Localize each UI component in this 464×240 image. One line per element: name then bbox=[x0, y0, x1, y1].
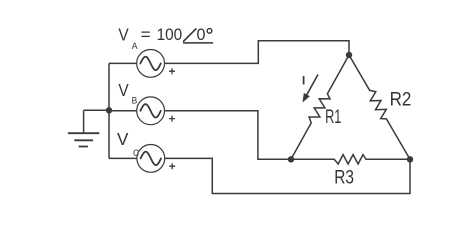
ac source VB plus polarity sign bbox=[169, 116, 175, 122]
wire source VB to left node bbox=[165, 111, 292, 160]
phasor angle underline bbox=[183, 42, 213, 44]
ground symbol bbox=[68, 133, 100, 146]
degree mark bbox=[207, 29, 212, 34]
phasor angle slash bbox=[183, 28, 196, 41]
wire left common bus bbox=[108, 63, 110, 158]
wire source VC to right node bbox=[165, 158, 410, 193]
resistor R1 bbox=[291, 55, 349, 159]
svg-text:V: V bbox=[118, 25, 129, 45]
ac source VC sine wave bbox=[141, 152, 161, 165]
node right vertex bbox=[407, 156, 413, 162]
svg-text:B: B bbox=[132, 96, 138, 107]
ac source VB sine wave bbox=[140, 104, 160, 117]
resistor R3 bbox=[291, 155, 410, 164]
current arrow I bbox=[306, 75, 318, 97]
ac source VC symbol circle bbox=[137, 145, 165, 173]
ground stem bbox=[83, 110, 85, 133]
wire bus to source VC bbox=[109, 157, 137, 159]
ac source VA plus polarity sign bbox=[169, 68, 175, 74]
node left vertex bbox=[288, 156, 294, 162]
ac source VA sine wave bbox=[140, 57, 160, 70]
svg-text:R1: R1 bbox=[325, 107, 341, 128]
svg-text:R3: R3 bbox=[334, 168, 354, 189]
svg-text:0: 0 bbox=[197, 25, 206, 44]
wire ground to bus bbox=[84, 109, 109, 111]
node top vertex bbox=[346, 52, 352, 58]
svg-text:V: V bbox=[117, 129, 129, 149]
svg-text:=: = bbox=[141, 25, 151, 44]
svg-text:100: 100 bbox=[157, 25, 183, 44]
wire bus to source VB bbox=[109, 110, 137, 112]
junction node at bus/ground bbox=[106, 107, 112, 113]
ac source VB symbol circle bbox=[137, 97, 165, 125]
label I current bbox=[303, 76, 305, 84]
wire source VA to top node bbox=[165, 41, 350, 64]
svg-text:C: C bbox=[133, 148, 139, 159]
svg-text:A: A bbox=[132, 41, 138, 52]
ac source VA symbol circle bbox=[137, 50, 165, 78]
svg-text:V: V bbox=[118, 80, 129, 100]
svg-text:R2: R2 bbox=[390, 89, 412, 110]
wire bus to source VA bbox=[109, 62, 137, 64]
ac source VC plus polarity sign bbox=[169, 163, 175, 169]
resistor R2 bbox=[349, 55, 410, 159]
